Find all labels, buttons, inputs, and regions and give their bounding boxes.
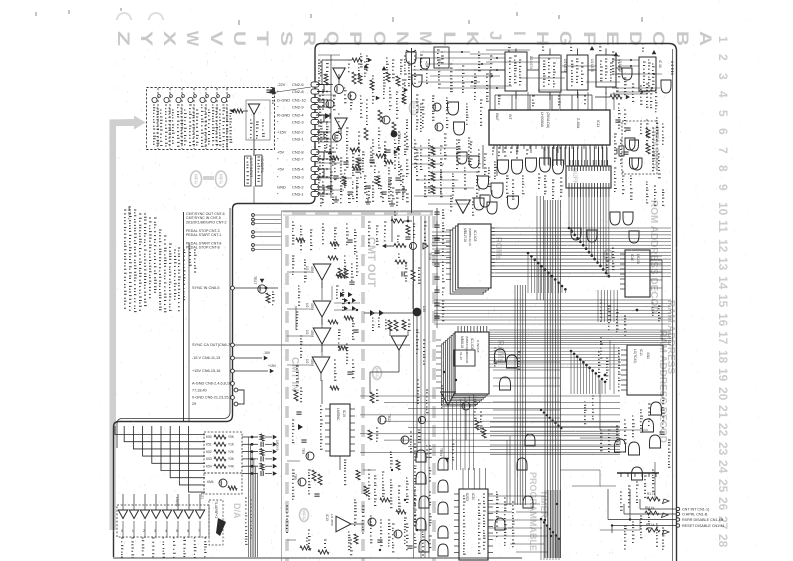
long vertical resistor feed bundle to bottom bbox=[248, 437, 250, 557]
svg-text:CN3-1: CN3-1 bbox=[292, 192, 304, 197]
IC42 4069UB label box bbox=[454, 350, 475, 366]
C45 cap + R10 resistor v bbox=[401, 271, 403, 276]
svg-text:1/FX+5: 1/FX+5 bbox=[275, 440, 279, 451]
svg-text:J: J bbox=[486, 31, 505, 40]
IC40 LS138 decoder bbox=[625, 250, 650, 297]
dark corner mark bbox=[268, 87, 276, 94]
extra resistors analog bbox=[358, 74, 362, 84]
wires gates to CPU bbox=[502, 145, 504, 153]
svg-text:15: 15 bbox=[716, 294, 730, 308]
wire stubs bottom bbox=[287, 460, 300, 462]
dense pin bundle CPU to buffer boost bbox=[543, 147, 545, 165]
connector box cell contents (transistors and micro labels) bbox=[152, 97, 157, 102]
gates row under CPU left bbox=[474, 198, 484, 210]
svg-text:13: 13 bbox=[716, 257, 730, 271]
notes text block (rotated micro text) bbox=[129, 207, 132, 310]
ground symbols analog bbox=[335, 196, 337, 200]
svg-text:11: 11 bbox=[716, 220, 730, 233]
resistor block rows (K50..KM4) bbox=[204, 432, 242, 473]
svg-text:TR3: TR3 bbox=[301, 448, 305, 454]
svg-text:-22V: -22V bbox=[277, 82, 286, 87]
op-amp IC42 pointing down bbox=[391, 336, 407, 350]
micro labels right top bbox=[618, 104, 621, 128]
scan speckle noise bbox=[110, 45, 681, 560]
svg-text:TR16: TR16 bbox=[428, 252, 432, 260]
svg-text:RM 1k: RM 1k bbox=[645, 506, 655, 510]
svg-text:D26: D26 bbox=[422, 306, 426, 312]
FF box IC16 top right bbox=[639, 57, 656, 91]
CMT IN wires and diodes extra bbox=[340, 292, 345, 297]
resistor column mid bbox=[364, 128, 368, 140]
bottom right of 8253 extra wires bbox=[512, 495, 545, 497]
buffer IC15 box with pin hatch bbox=[566, 166, 611, 188]
svg-text:CN2-8: CN2-8 bbox=[292, 150, 304, 155]
svg-text:O APRL CN1-B: O APRL CN1-B bbox=[682, 512, 708, 516]
svg-text:R-GND: R-GND bbox=[277, 113, 290, 118]
IC11 LS07245 right bbox=[627, 345, 663, 395]
micro labels analog block bbox=[322, 90, 324, 109]
wires right column verticals bbox=[661, 310, 663, 340]
wire vertical from signal rows bbox=[183, 212, 185, 421]
svg-text:IC11: IC11 bbox=[639, 349, 643, 356]
svg-text:LM556C: LM556C bbox=[336, 408, 340, 421]
wires into CMT IN op-amps bbox=[287, 271, 311, 273]
wires connector rows across border bbox=[640, 508, 676, 510]
svg-text:CN2-6: CN2-6 bbox=[292, 82, 304, 87]
svg-text:1/2: 1/2 bbox=[305, 330, 309, 335]
R100 resistor into TR16 bbox=[394, 244, 406, 248]
margin grid letters A-Z (rotated) bbox=[114, 31, 715, 47]
CMT OUT lower parts bbox=[370, 392, 374, 403]
row of pin ticks y190 bbox=[568, 188, 570, 197]
svg-text:IC19: IC19 bbox=[342, 410, 346, 417]
svg-text:+15V CN6-15,16: +15V CN6-15,16 bbox=[192, 369, 220, 373]
svg-text:MBL2716: MBL2716 bbox=[463, 228, 467, 242]
micro labels CMT OUT bottom bbox=[368, 470, 371, 499]
wires gate cluster bbox=[600, 429, 648, 431]
svg-text:I: I bbox=[510, 31, 529, 36]
svg-text:RXRR DISABLE CN1-4B: RXRR DISABLE CN1-4B bbox=[682, 518, 724, 522]
svg-text:CMT OUT: CMT OUT bbox=[365, 237, 377, 287]
junction wires right of resistor block bbox=[242, 436, 258, 438]
op-amp near ROM left bbox=[456, 200, 471, 213]
flip-flop boxes row (LS74) bbox=[505, 52, 527, 91]
svg-text:4069UB: 4069UB bbox=[465, 352, 469, 363]
svg-text:X: X bbox=[160, 31, 179, 47]
micro labels along CMT OUT strip bbox=[416, 330, 419, 353]
svg-text:IC21: IC21 bbox=[200, 492, 204, 499]
svg-text:+15V: +15V bbox=[268, 364, 277, 368]
extra gates near divider bbox=[421, 58, 430, 69]
svg-text:8: 8 bbox=[716, 165, 730, 172]
gate column left of 8253 bbox=[438, 458, 448, 470]
gate IC47 at border bbox=[661, 80, 671, 93]
wire SYNC IN bbox=[234, 287, 278, 289]
transistor pair near IC49 bbox=[433, 103, 441, 111]
staircase RAM right bbox=[570, 350, 573, 353]
right side IC11 region extra bbox=[598, 352, 601, 376]
analog lower extra parts bbox=[322, 182, 324, 202]
svg-text:26: 26 bbox=[716, 497, 730, 511]
extra wires top analog bbox=[318, 54, 340, 56]
gates above LS138 bbox=[610, 212, 620, 225]
FF to CPU vertical wires bbox=[515, 92, 517, 110]
svg-text:19: 19 bbox=[716, 368, 730, 382]
second staircase (left of first) bbox=[527, 252, 530, 255]
svg-text:23: 23 bbox=[716, 442, 730, 456]
gates between FF boxes bbox=[622, 68, 632, 80]
top digital interconnect wires bbox=[420, 51, 470, 53]
feedback resistors right of op-amps bbox=[338, 268, 342, 278]
svg-text:(MB8516) x8: (MB8516) x8 bbox=[468, 228, 472, 246]
svg-text:KM4: KM4 bbox=[207, 480, 214, 484]
power cap column x433-446 y210-330 bbox=[434, 211, 439, 213]
svg-text:24: 24 bbox=[716, 460, 730, 474]
svg-text:1/2 LS74: 1/2 LS74 bbox=[563, 59, 567, 72]
svg-text:CMT IN: CMT IN bbox=[289, 357, 300, 391]
svg-text:1/2: 1/2 bbox=[305, 303, 309, 308]
svg-text:IC40: IC40 bbox=[630, 254, 634, 261]
wire fan to D/A resistor block bbox=[115, 426, 205, 435]
svg-text:Y2K: Y2K bbox=[228, 450, 235, 454]
more micro labels right mid bbox=[612, 248, 615, 270]
pad stub wires inside analog left edge bbox=[330, 55, 332, 198]
svg-text:Y1K: Y1K bbox=[228, 443, 235, 447]
svg-text:(Z80A-DA): (Z80A-DA) bbox=[546, 112, 550, 128]
labels under signal rows bbox=[189, 246, 192, 265]
gray stamp ovals bbox=[191, 171, 202, 187]
svg-text:VO/1B/P/L: VO/1B/P/L bbox=[260, 157, 264, 174]
FF box top labels bbox=[508, 44, 511, 51]
CPU IC11 Z-80A bbox=[489, 110, 610, 145]
bus lines to ROM left side bbox=[432, 231, 458, 233]
CPU top pin wires bbox=[494, 95, 496, 110]
ROM data/address bus horizontal lines bbox=[491, 227, 569, 229]
caps analog bbox=[369, 159, 374, 161]
LM556C IC19 box bbox=[330, 404, 350, 456]
wire -15V with arrow bbox=[234, 357, 262, 359]
svg-text:18: 18 bbox=[716, 350, 730, 364]
top band interconnect wires digital bbox=[486, 49, 530, 51]
sparse wires bottom right bbox=[560, 469, 600, 471]
svg-text:K: K bbox=[463, 31, 482, 47]
svg-text:3: 3 bbox=[716, 73, 730, 80]
signal row pads bbox=[252, 214, 255, 217]
svg-text:NOTE: 1.: NOTE: 1. bbox=[127, 206, 131, 220]
svg-text:D/A: D/A bbox=[232, 503, 242, 519]
extra analog resistors/caps lower bbox=[330, 156, 339, 160]
verticals joining upper-mid bus bbox=[597, 290, 599, 322]
extra bus rows above RAM bbox=[434, 319, 671, 321]
svg-text:5: 5 bbox=[716, 110, 730, 117]
pads on left block border bbox=[231, 286, 235, 290]
svg-text:1/2 4558: 1/2 4558 bbox=[330, 514, 334, 526]
svg-text:R1 1k: R1 1k bbox=[646, 523, 655, 527]
D/A aux dashed cell bbox=[209, 500, 223, 545]
svg-text:25: 25 bbox=[716, 479, 730, 493]
buffer area extra hatch bbox=[569, 160, 571, 166]
svg-text:8253: 8253 bbox=[465, 493, 469, 501]
svg-text:9: 9 bbox=[716, 184, 730, 191]
more gates left of LS138 bbox=[571, 228, 581, 240]
bottom crop line bbox=[113, 557, 522, 559]
resistor R94 top bbox=[610, 95, 622, 99]
filter parts near op-amp bbox=[230, 109, 234, 114]
svg-text:1/2: 1/2 bbox=[305, 266, 309, 271]
svg-text:S: S bbox=[277, 31, 296, 46]
resistor column left CMT IN bbox=[294, 390, 298, 401]
bold bus bar under gate cluster bbox=[617, 472, 659, 474]
resistor ladder below LM556 bbox=[312, 470, 316, 481]
wires CMT IN verticals bbox=[321, 380, 323, 404]
svg-text:RESET DISABLE CN1-41: RESET DISABLE CN1-41 bbox=[682, 524, 725, 528]
RAM stack MB8118 IC1-IC8 bbox=[442, 344, 476, 406]
gate column x415-430 CMT OUT bottom bbox=[416, 450, 426, 462]
ROM stack MBL2716 IC1-IC8 bbox=[450, 230, 483, 294]
svg-text:IC11: IC11 bbox=[596, 120, 600, 127]
bottom center extra texture bbox=[292, 470, 295, 499]
micro rows under D/A triangles bbox=[122, 521, 124, 538]
thin outline of CMT boxes bbox=[282, 210, 434, 212]
margin grid numbers 1-28 (rotated) bbox=[716, 36, 730, 548]
wires LS138 to bus bbox=[650, 255, 662, 257]
svg-text:7: 7 bbox=[716, 147, 730, 154]
vertical bus long x515-525 bbox=[514, 285, 516, 505]
svg-text:Z: Z bbox=[114, 31, 133, 46]
micro labels under CPU bbox=[478, 150, 481, 171]
ROM pin ticks bbox=[491, 227, 495, 229]
micro labels under diode bbox=[372, 318, 374, 331]
svg-text:V: V bbox=[207, 31, 226, 47]
gray dashed vertical boundary x=434 bbox=[432, 216, 436, 561]
digital mid-left extra (x396-495 y140-210) bbox=[414, 140, 417, 167]
analog block lower fill bbox=[320, 196, 323, 206]
svg-text:Y3K: Y3K bbox=[228, 457, 235, 461]
up arrows top right bbox=[590, 46, 595, 50]
wires LS138 bbox=[650, 259, 662, 261]
wire +15V with arrow bbox=[234, 370, 268, 372]
extra caps analog bbox=[343, 161, 348, 163]
op-amp TR11 circuit top bbox=[333, 68, 345, 79]
extra horizontal bus lines upper mid bbox=[434, 299, 671, 301]
svg-text:-15V: -15V bbox=[263, 351, 271, 355]
more bottom-center dots bbox=[391, 469, 393, 471]
XOR gate cluster bottom right bbox=[615, 439, 626, 452]
svg-text:INT: INT bbox=[508, 114, 512, 119]
cap C123 top right of box bbox=[266, 89, 271, 91]
resistors x472-488 bbox=[475, 420, 479, 430]
arrow left + out arrow bbox=[382, 244, 386, 249]
svg-text:K54: K54 bbox=[206, 464, 212, 468]
wire from dashed box op-amp down bbox=[253, 186, 255, 204]
svg-text:LS138: LS138 bbox=[636, 254, 640, 264]
micro labels between amps bbox=[336, 286, 339, 298]
svg-text:10: 10 bbox=[716, 202, 730, 216]
svg-text:B: B bbox=[673, 31, 692, 46]
svg-text:4011: 4011 bbox=[646, 352, 650, 359]
XOR gates x495-520 y350-392 bbox=[495, 349, 506, 362]
diode D11 bbox=[325, 113, 330, 119]
svg-text:21: 21 bbox=[716, 405, 730, 419]
svg-text:-15 V CN6-11,13: -15 V CN6-11,13 bbox=[192, 356, 220, 360]
gray highlight arrow (elbow pointing right) bbox=[110, 116, 146, 531]
extra transistors analog bbox=[348, 92, 356, 100]
resistor ladder x432-444 bbox=[431, 146, 435, 155]
svg-text:SYNC IN CN6-5: SYNC IN CN6-5 bbox=[192, 286, 219, 290]
svg-text:LS251: LS251 bbox=[175, 497, 179, 507]
svg-text:LS(TC40): LS(TC40) bbox=[633, 349, 637, 363]
svg-text:IC30: IC30 bbox=[471, 493, 475, 500]
long verticals CMT OUT strip bbox=[413, 216, 415, 558]
svg-text:K50: K50 bbox=[206, 435, 212, 439]
parallel wire above fan bbox=[117, 208, 230, 448]
svg-text:A-GND CN6-2,4,6,8,10: A-GND CN6-2,4,6,8,10 bbox=[192, 382, 231, 386]
notes block extra columns bbox=[124, 210, 127, 308]
resistor network top bbox=[352, 58, 362, 62]
oscillator GEN 8MHz dashed box bbox=[622, 121, 657, 174]
svg-text:MFG: MFG bbox=[302, 510, 307, 520]
ROM box left pin ticks bbox=[446, 229, 451, 231]
svg-text:D INOUT: D INOUT bbox=[476, 340, 480, 353]
svg-text:MFG: MFG bbox=[194, 174, 199, 184]
svg-text:MFG: MFG bbox=[412, 103, 417, 113]
wire y313 and diode pair bbox=[364, 312, 413, 314]
svg-text:1: 1 bbox=[716, 36, 730, 43]
border inner line right bbox=[672, 49, 674, 561]
ghost arcs top-left bbox=[117, 13, 131, 20]
staircase bottom bbox=[540, 518, 542, 520]
bus bottom horizontals bbox=[490, 421, 620, 423]
svg-text:CN2-9: CN2-9 bbox=[292, 105, 304, 110]
svg-text:CN2-4: CN2-4 bbox=[292, 113, 304, 118]
verticals from RAM bottom bbox=[443, 406, 445, 470]
CMT OUT upper extra labels bbox=[368, 222, 371, 246]
svg-text:Y4K: Y4K bbox=[228, 464, 235, 468]
bottom-center scatter bbox=[356, 470, 360, 480]
svg-text:PEDAL STOP CNT-8: PEDAL STOP CNT-8 bbox=[186, 246, 220, 250]
8253 programmable timer IC30 bbox=[459, 489, 488, 560]
gray dashed box CMT OUT/IN boundaries - horizontal band bbox=[283, 211, 433, 215]
svg-text:TL44F8P+2: TL44F8P+2 bbox=[214, 501, 218, 518]
svg-text:20: 20 bbox=[716, 387, 730, 401]
svg-text:Z-80A: Z-80A bbox=[576, 118, 580, 129]
svg-text:IC 16: IC 16 bbox=[658, 60, 662, 68]
svg-text:C.V.T INPUT: C.V.T INPUT bbox=[249, 158, 253, 179]
svg-text:R: R bbox=[300, 31, 319, 46]
XOR gates near divider bbox=[406, 52, 416, 64]
transistor TR16 bbox=[410, 243, 417, 250]
RAM pin ticks top bbox=[457, 326, 459, 332]
svg-text:+5V: +5V bbox=[277, 150, 285, 155]
svg-text:CN5-4: CN5-4 bbox=[292, 167, 304, 172]
svg-text:K51: K51 bbox=[206, 443, 212, 447]
svg-text:28: 28 bbox=[716, 534, 730, 548]
D/A op-amp row (dashed box) bbox=[117, 505, 209, 537]
op-amp TR12 circuit bbox=[335, 118, 347, 129]
small IC box near divider top bbox=[434, 47, 449, 68]
svg-text:GND: GND bbox=[277, 185, 286, 190]
connection dots mid column bbox=[443, 371, 445, 373]
svg-text:12: 12 bbox=[716, 239, 730, 253]
diode pairs right bbox=[344, 298, 348, 303]
strong vertical bus bundles bottom right bbox=[544, 200, 546, 558]
svg-text:6: 6 bbox=[716, 128, 730, 135]
CMT IN op-amp surround parts bbox=[336, 274, 345, 278]
svg-text:0-GND CN6-21,23,25,27: 0-GND CN6-21,23,25,27 bbox=[192, 396, 234, 400]
svg-text:14: 14 bbox=[716, 276, 730, 290]
triangle amps below bbox=[441, 392, 456, 405]
extra transistor bottom center bbox=[418, 416, 425, 423]
scan registration marks bbox=[35, 12, 37, 16]
gray micro caption 4-BIT CONVERTER bbox=[245, 498, 248, 544]
svg-text:MB8118: MB8118 bbox=[460, 336, 464, 348]
svg-text:CN3-1: CN3-1 bbox=[292, 137, 304, 142]
bottom resistors CMT IN bbox=[300, 546, 311, 550]
wire from gates to rows bbox=[607, 489, 609, 520]
bus mid horizontals y396-460 bbox=[360, 395, 620, 397]
vertical bus to 8253 bbox=[462, 468, 464, 489]
op-amp IC13 bottom bbox=[336, 516, 351, 532]
RAM box left pin ticks bbox=[436, 339, 441, 341]
black wedge bbox=[216, 518, 226, 536]
small parts near cluster bbox=[662, 398, 665, 428]
bus CPU to buffer (vertical bundle) bbox=[544, 145, 546, 166]
svg-text:22: 22 bbox=[716, 423, 730, 437]
svg-text:WAIT: WAIT bbox=[495, 113, 499, 121]
R69 resistor bbox=[395, 260, 407, 264]
micro labels under D/A bbox=[121, 538, 124, 557]
resistors SM9 S2LR bbox=[388, 320, 392, 331]
test point dot TP5 bbox=[391, 131, 398, 138]
svg-text:R1 1k: R1 1k bbox=[647, 492, 656, 496]
svg-text:CN5-2: CN5-2 bbox=[292, 185, 304, 190]
svg-text:IC13: IC13 bbox=[325, 514, 329, 521]
CMT OUT amp chain: R 1K top bbox=[391, 219, 404, 223]
svg-text:IC1-IC8: IC1-IC8 bbox=[470, 338, 474, 350]
op-amp column IC23 (4 amps pointing down) bbox=[313, 264, 331, 280]
svg-text:A: A bbox=[696, 31, 715, 46]
wires under CPU to gates bbox=[544, 145, 546, 151]
svg-text:CN2-3: CN2-3 bbox=[292, 120, 304, 125]
arrows analog power bbox=[364, 64, 369, 68]
svg-text:MFG: MFG bbox=[375, 368, 380, 378]
svg-text:2K3/2K1/8K/GPIO CNT-2: 2K3/2K1/8K/GPIO CNT-2 bbox=[186, 220, 227, 224]
svg-text:CN2-2: CN2-2 bbox=[292, 130, 304, 135]
svg-text:1/2: 1/2 bbox=[305, 359, 309, 364]
pad jumper wires bbox=[317, 85, 324, 92]
svg-text:RAMs: RAMs bbox=[496, 340, 505, 363]
gates mid bottom right bbox=[525, 434, 535, 446]
svg-text:Y: Y bbox=[137, 31, 156, 47]
svg-text:LH0080A: LH0080A bbox=[540, 112, 544, 128]
transistors CMT IN bottom bbox=[306, 452, 314, 460]
staircase bus corners buffer to ROM bus bbox=[568, 196, 570, 228]
svg-text:SYNC CA OUT(CN6-7): SYNC CA OUT(CN6-7) bbox=[192, 343, 232, 347]
svg-text:IC1-IC8: IC1-IC8 bbox=[473, 230, 477, 242]
svg-text:16: 16 bbox=[716, 313, 730, 327]
label plates C.V.T INPUT (rotated) bbox=[245, 156, 252, 186]
bus below buffer bbox=[568, 188, 570, 196]
svg-text:PROGRAMMABLE: PROGRAMMABLE bbox=[528, 472, 538, 551]
wires analog block bbox=[316, 84, 333, 86]
transistor TR17 left bbox=[258, 285, 266, 293]
svg-text:4: 4 bbox=[716, 91, 730, 98]
svg-text:+15V: +15V bbox=[277, 130, 287, 135]
horizontal tie lines mid right bbox=[493, 361, 560, 363]
analog sub-block divider bbox=[411, 48, 413, 213]
gates under CPU bbox=[498, 160, 509, 174]
svg-text:29: 29 bbox=[192, 402, 196, 406]
